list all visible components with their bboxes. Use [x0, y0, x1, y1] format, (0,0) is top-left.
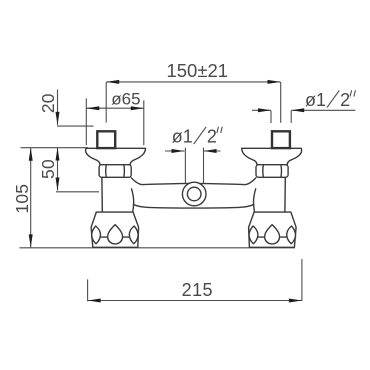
- svg-text:ø1: ø1: [305, 90, 326, 110]
- svg-text:215: 215: [182, 280, 213, 300]
- svg-text:105: 105: [12, 184, 32, 214]
- svg-text:2: 2: [207, 126, 217, 146]
- svg-text:ø1: ø1: [172, 126, 193, 146]
- svg-text:150±21: 150±21: [166, 60, 228, 81]
- svg-text:20: 20: [38, 93, 58, 113]
- svg-text:2: 2: [340, 90, 350, 110]
- svg-text:50: 50: [38, 159, 58, 179]
- svg-text:ø65: ø65: [111, 89, 140, 108]
